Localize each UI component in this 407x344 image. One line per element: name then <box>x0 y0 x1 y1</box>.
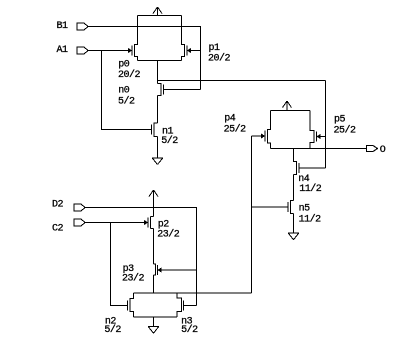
svg-text:25/2: 25/2 <box>224 123 247 135</box>
wire node2 up <box>251 136 253 293</box>
svg-text:20/2: 20/2 <box>208 52 231 64</box>
input port D2 <box>74 204 85 211</box>
wire n1 source <box>157 137 159 159</box>
transistor n2 <box>128 293 134 317</box>
wire n0 gate <box>164 89 201 91</box>
wire n4 to n5 <box>293 175 295 201</box>
svg-text:5/2: 5/2 <box>161 135 178 147</box>
wire node1 vertical <box>325 81 327 169</box>
svg-text:p5: p5 <box>334 115 346 126</box>
wire B1 <box>88 27 201 90</box>
transistor n4 <box>294 149 300 175</box>
svg-text:25/2: 25/2 <box>334 124 357 136</box>
svg-text:p0: p0 <box>118 59 130 70</box>
wire node2 rail <box>134 292 252 294</box>
svg-text:p1: p1 <box>209 43 221 54</box>
svg-text:5/2: 5/2 <box>181 324 198 336</box>
svg-text:A1: A1 <box>57 45 69 56</box>
wire n4 gate <box>299 167 326 169</box>
transistor p1 <box>182 16 192 61</box>
svg-text:O: O <box>380 145 386 156</box>
transistor n0 <box>158 84 164 96</box>
wire ground stem NOR <box>153 317 155 327</box>
wire C2 branch to n2 gate <box>111 223 128 306</box>
svg-text:B1: B1 <box>57 21 69 32</box>
transistor n5 <box>288 201 294 214</box>
wire p4 gate <box>252 135 262 137</box>
wire p1 gate <box>191 50 201 52</box>
svg-text:n0: n0 <box>118 86 130 97</box>
svg-text:n5: n5 <box>299 204 311 215</box>
wire A1 branch to n1 gate <box>102 51 152 130</box>
wire node1 tap <box>158 80 326 82</box>
svg-text:23/2: 23/2 <box>157 229 180 241</box>
input port B1 <box>77 23 88 30</box>
input port A1 <box>77 47 88 54</box>
wire p3 gate <box>161 269 197 271</box>
wire VDD rail output stage <box>271 110 311 112</box>
wire NMOS source rail NOR <box>134 316 178 318</box>
wire C2 <box>85 222 145 224</box>
svg-text:11/2: 11/2 <box>299 213 322 225</box>
transistor p5 <box>310 111 321 149</box>
wire p3 drain <box>153 275 155 293</box>
transistor p0 <box>128 16 138 61</box>
svg-text:20/2: 20/2 <box>118 69 141 81</box>
transistor n3 <box>177 293 184 317</box>
input port C2 <box>74 219 85 226</box>
svg-text:p4: p4 <box>224 113 236 124</box>
svg-text:5/2: 5/2 <box>104 324 121 336</box>
VDD symbol output stage <box>283 101 292 111</box>
transistor p3 <box>154 264 162 275</box>
wire VDD rail NAND1 <box>138 15 182 17</box>
wire node1 down to n0 <box>157 61 159 84</box>
svg-text:C2: C2 <box>52 223 64 234</box>
svg-text:5/2: 5/2 <box>118 96 135 108</box>
VDD symbol NAND1 <box>153 7 162 16</box>
wire n0 to n1 <box>157 96 159 124</box>
wire D2 <box>85 208 197 306</box>
ground output stage <box>288 233 299 240</box>
VDD symbol NOR <box>149 190 158 217</box>
svg-text:11/2: 11/2 <box>299 183 322 195</box>
ground NOR <box>148 327 159 334</box>
output port O <box>367 146 378 152</box>
wire PMOS drain node NAND1 <box>138 60 182 62</box>
wire output node <box>271 148 367 150</box>
transistor p2 <box>144 217 154 229</box>
wire A1 <box>88 50 129 52</box>
ground NAND1 <box>152 158 163 165</box>
transistor p4 <box>261 111 271 149</box>
svg-text:23/2: 23/2 <box>122 273 145 285</box>
svg-text:D2: D2 <box>52 199 64 210</box>
wire n5 gate <box>252 206 289 208</box>
wire p2 to p3 <box>153 229 155 265</box>
wire n3 gate <box>184 305 197 307</box>
transistor n1 <box>152 123 158 137</box>
wire p5 gate <box>320 136 326 138</box>
wire n5 source <box>293 214 295 234</box>
